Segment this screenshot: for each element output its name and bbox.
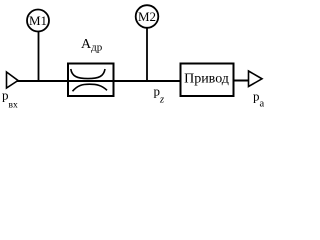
svg-text:Привод: Привод	[184, 72, 229, 87]
svg-text:М2: М2	[138, 9, 156, 24]
svg-text:М1: М1	[29, 13, 47, 28]
